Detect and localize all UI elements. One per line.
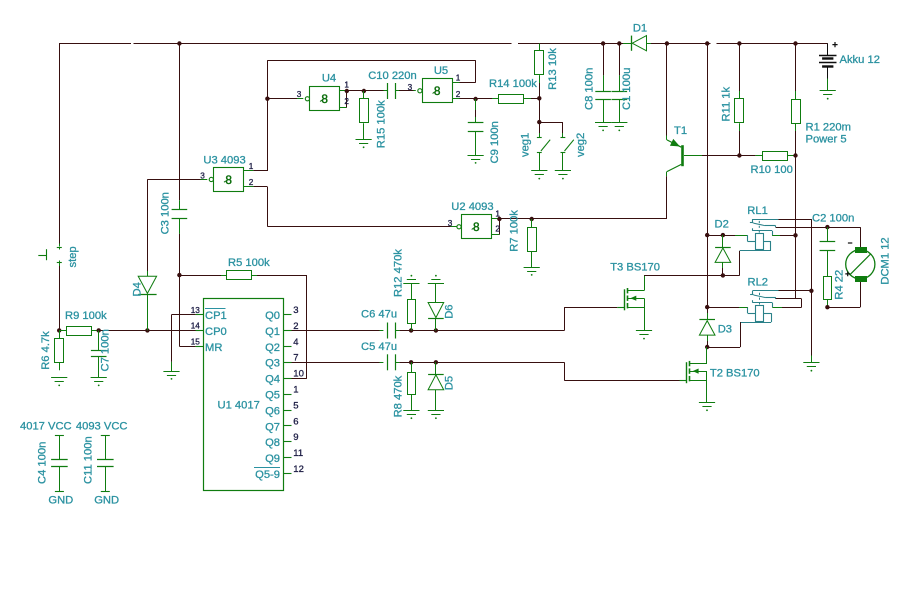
junction RL2 coil left node bbox=[705, 305, 709, 309]
ground R8 bbox=[403, 411, 419, 420]
wire T1 collector to U2 out bbox=[532, 176, 667, 219]
pin 1 label U5 bbox=[456, 73, 461, 82]
pushbutton actuator bbox=[38, 249, 47, 260]
junction R9 left node bbox=[57, 328, 61, 332]
pin 1 label U4 bbox=[344, 81, 349, 90]
wire T3 gate bbox=[564, 307, 617, 330]
label C2 100n bbox=[812, 213, 854, 225]
pin 14 CP0 U1 bbox=[191, 322, 227, 338]
wire node to MR bbox=[179, 275, 195, 346]
diode D5 bbox=[428, 362, 444, 410]
svg-text:Q5-9: Q5-9 bbox=[255, 469, 280, 481]
capacitor C4 bbox=[51, 435, 68, 491]
svg-text:R14 100k: R14 100k bbox=[489, 78, 537, 90]
label GND C11 bbox=[94, 495, 119, 507]
junction R14 right node bbox=[537, 96, 541, 100]
capacitor C11 bbox=[97, 435, 114, 491]
resistor R11 bbox=[735, 44, 744, 156]
pin 2 label U4 bbox=[344, 97, 349, 106]
label R12 470k bbox=[392, 249, 404, 297]
wire D6 to T3 step bbox=[436, 330, 564, 332]
pin 11 Q9 U1 bbox=[265, 448, 303, 465]
wire to D5 bbox=[411, 362, 436, 364]
label Akku 12 bbox=[840, 54, 880, 66]
junction D6 bottom bbox=[434, 328, 438, 332]
resistor R5 bbox=[179, 271, 307, 280]
label C8 100n bbox=[584, 68, 596, 110]
pin 1 Q5 U1 bbox=[265, 385, 299, 402]
resistor R9 bbox=[59, 327, 98, 336]
svg-text:13: 13 bbox=[191, 306, 201, 315]
svg-text:R10 100: R10 100 bbox=[751, 164, 793, 176]
junction R7 top bbox=[530, 217, 534, 221]
capacitor C7 bbox=[91, 330, 107, 377]
label R8 470k bbox=[392, 375, 404, 417]
wire step to R9 node bbox=[59, 262, 61, 330]
svg-text:Q2: Q2 bbox=[265, 342, 280, 354]
junction veg node bbox=[537, 120, 541, 124]
wire RL1 lower contact to R1 node bbox=[772, 235, 795, 237]
svg-text:1: 1 bbox=[293, 385, 298, 396]
svg-text:Akku 12: Akku 12 bbox=[840, 54, 880, 66]
diode D3 bbox=[699, 307, 715, 347]
motor DCM1 bbox=[846, 248, 875, 282]
svg-text:U5: U5 bbox=[434, 65, 448, 77]
label C5 47u bbox=[361, 341, 397, 353]
svg-text:C2 100n: C2 100n bbox=[812, 213, 854, 225]
junction C7 node bbox=[97, 328, 101, 332]
svg-text:4: 4 bbox=[293, 337, 298, 348]
relay RL2 bbox=[740, 291, 779, 323]
resistor R15 bbox=[360, 91, 369, 140]
junction U5 out node bbox=[473, 97, 477, 101]
wire T2 gate bbox=[564, 362, 679, 380]
svg-text:R7 100k: R7 100k bbox=[509, 210, 521, 252]
svg-text:R9 100k: R9 100k bbox=[65, 310, 107, 322]
wire C10 to U5 input bbox=[395, 90, 416, 92]
label U4 bbox=[322, 73, 336, 85]
pin 3 label U3 bbox=[200, 171, 205, 180]
pin 5 Q6 U1 bbox=[265, 400, 299, 417]
switch veg1 bbox=[537, 122, 550, 171]
svg-text:4093 VCC: 4093 VCC bbox=[76, 421, 128, 433]
svg-text:15: 15 bbox=[191, 338, 201, 347]
svg-text:Q5: Q5 bbox=[265, 390, 280, 402]
svg-text:5: 5 bbox=[293, 400, 298, 411]
svg-text:veg2: veg2 bbox=[575, 133, 587, 157]
junction D3 bottom T2 drain bbox=[705, 345, 709, 349]
wire to RL2 coil node bbox=[707, 235, 709, 307]
label R1 220m bbox=[806, 122, 851, 134]
op-amp U5 gate bbox=[418, 79, 453, 103]
junction on rail at R1 bbox=[793, 41, 797, 45]
ground CP1 bbox=[163, 372, 179, 380]
pin 2 label U3 bbox=[249, 178, 254, 187]
junction R1 bottom node bbox=[793, 153, 797, 157]
resistor R8 bbox=[408, 362, 416, 410]
svg-text:8: 8 bbox=[225, 173, 232, 187]
resistor R12 bbox=[408, 283, 416, 330]
diode D2 bbox=[715, 235, 731, 275]
svg-text:4017 VCC: 4017 VCC bbox=[20, 421, 72, 433]
junction on rail at C1 bbox=[617, 41, 621, 45]
label D6 bbox=[443, 304, 455, 318]
svg-text:R5 100k: R5 100k bbox=[228, 257, 270, 269]
pin 2 U4 stub bbox=[340, 91, 347, 108]
svg-text:3: 3 bbox=[408, 83, 413, 92]
wire RL2 lower contact bbox=[772, 307, 801, 309]
svg-text:Q1: Q1 bbox=[265, 326, 280, 338]
wire RL1 pole to C2 node bbox=[776, 227, 828, 229]
wire veg node to veg2 bbox=[539, 122, 563, 138]
pin 6 Q7 U1 bbox=[265, 416, 299, 433]
IC U1 4017 body bbox=[204, 299, 284, 491]
svg-text:C6 47u: C6 47u bbox=[361, 309, 397, 321]
pin 7 Q3 U1 bbox=[265, 353, 299, 370]
switch veg2 bbox=[561, 138, 574, 171]
svg-text:T1: T1 bbox=[674, 125, 687, 137]
label DCM1 12 bbox=[879, 237, 891, 284]
svg-text:T2 BS170: T2 BS170 bbox=[710, 367, 760, 379]
svg-text:Power 5: Power 5 bbox=[806, 134, 847, 146]
svg-text:C4 100n: C4 100n bbox=[37, 442, 49, 484]
svg-text:U3 4093: U3 4093 bbox=[203, 154, 245, 166]
svg-text:D3: D3 bbox=[718, 323, 732, 335]
ground veg2 bbox=[555, 171, 571, 180]
svg-text:C10 220n: C10 220n bbox=[368, 70, 417, 82]
label T2 BS170 bbox=[710, 367, 760, 379]
ground C8 bbox=[595, 123, 611, 132]
resistor R10 bbox=[739, 152, 795, 161]
pin 10 Q4 U1 bbox=[265, 369, 304, 386]
junction D2 top bbox=[721, 233, 725, 237]
svg-text:1: 1 bbox=[249, 162, 254, 171]
svg-text:8: 8 bbox=[434, 84, 441, 98]
svg-text:Q7: Q7 bbox=[265, 421, 280, 433]
label C9 100n bbox=[489, 121, 501, 163]
label U1 4017 bbox=[218, 400, 260, 412]
svg-text:9: 9 bbox=[293, 432, 298, 443]
pin 1 U4 stub bbox=[340, 90, 347, 92]
wire Q1 to C6 bbox=[292, 330, 384, 332]
wire T1 base to R10 bbox=[702, 155, 739, 157]
label R7 100k bbox=[509, 210, 521, 252]
svg-text:D4: D4 bbox=[131, 282, 143, 296]
op-amp U3 gate 4093 bbox=[209, 168, 243, 192]
svg-text:R13 10k: R13 10k bbox=[547, 48, 559, 90]
label Power 5 bbox=[806, 134, 847, 146]
svg-text:1: 1 bbox=[344, 81, 349, 90]
svg-text:3: 3 bbox=[293, 305, 298, 316]
transistor T2 BS170 bbox=[680, 347, 708, 403]
svg-text:2: 2 bbox=[344, 97, 349, 106]
svg-text:C11 100n: C11 100n bbox=[83, 436, 95, 484]
ground T3 source bbox=[636, 331, 652, 340]
svg-text:10: 10 bbox=[293, 369, 304, 380]
junction on rail at T1 emitter bbox=[665, 41, 669, 45]
wire C2 node to motor top bbox=[827, 227, 860, 247]
svg-text:U2 4093: U2 4093 bbox=[451, 201, 493, 213]
label 4017 VCC bbox=[20, 421, 72, 433]
svg-text:8: 8 bbox=[321, 92, 328, 106]
svg-text:R11 1k: R11 1k bbox=[721, 86, 733, 121]
label D3 bbox=[718, 323, 732, 335]
junction D5 top bbox=[434, 360, 438, 364]
junction RL1 coil left node bbox=[705, 233, 709, 237]
label U2 4093 bbox=[451, 201, 493, 213]
svg-text:R6 4.7k: R6 4.7k bbox=[40, 331, 52, 370]
transistor T1 bbox=[667, 140, 703, 176]
resistor R4 bbox=[824, 250, 832, 307]
svg-text:R4 22: R4 22 bbox=[834, 270, 846, 300]
label C7 100n bbox=[99, 329, 111, 371]
svg-text:D2: D2 bbox=[715, 219, 729, 231]
svg-text:R15 100k: R15 100k bbox=[375, 100, 387, 148]
label R4 22 bbox=[834, 270, 846, 300]
label GND C4 bbox=[48, 495, 73, 507]
svg-text:RL1: RL1 bbox=[747, 205, 768, 217]
svg-text:C3 100n: C3 100n bbox=[159, 192, 171, 234]
wire U3 pin3 lead bbox=[201, 179, 208, 181]
wire rail to T1 emitter bbox=[666, 44, 668, 140]
ground C1 bbox=[611, 123, 627, 132]
junction R5 node bbox=[177, 273, 181, 277]
label R15 100k bbox=[375, 100, 387, 148]
label step bbox=[67, 246, 79, 267]
svg-text:14: 14 bbox=[191, 322, 201, 331]
wire U4 input bbox=[267, 98, 303, 100]
label D4 bbox=[131, 282, 143, 296]
junction T1 base node bbox=[737, 153, 741, 157]
label U5 bbox=[434, 65, 448, 77]
wire U3 pin1 to U5 pin1 loop bbox=[267, 60, 475, 171]
resistor R13 bbox=[535, 44, 544, 99]
wire R15 to C10 bbox=[364, 90, 387, 92]
label R11 1k bbox=[721, 86, 733, 121]
label plus motor bbox=[845, 272, 850, 277]
label R14 100k bbox=[489, 78, 537, 90]
wire to ground x811 bbox=[811, 291, 813, 363]
svg-text:R12 470k: R12 470k bbox=[392, 249, 404, 297]
wire RL2 pole to motor node bbox=[776, 299, 802, 308]
ground R6 bbox=[51, 378, 67, 387]
switch step bbox=[57, 248, 62, 263]
svg-text:C5 47u: C5 47u bbox=[361, 341, 397, 353]
wire R1 node to RL2 pole bbox=[795, 235, 797, 299]
wire R13 to veg node bbox=[539, 98, 541, 122]
svg-text:Q6: Q6 bbox=[265, 405, 280, 417]
label D2 bbox=[715, 219, 729, 231]
svg-text:U1 4017: U1 4017 bbox=[218, 400, 260, 412]
label 4093 VCC bbox=[76, 421, 128, 433]
svg-text:C1 100u: C1 100u bbox=[621, 68, 633, 110]
svg-text:T3 BS170: T3 BS170 bbox=[610, 261, 660, 273]
svg-text:C7 100n: C7 100n bbox=[99, 329, 111, 371]
pin 1 U5 stub bbox=[452, 82, 475, 84]
wire CP1 to ground bbox=[172, 315, 196, 372]
wire RL2 top contact to gnd node bbox=[779, 290, 812, 292]
wire RL1 coil left bbox=[707, 235, 747, 237]
label R6 4.7k bbox=[40, 331, 52, 370]
svg-text:DCM1 12: DCM1 12 bbox=[879, 237, 891, 284]
wire R4 node to motor bottom bbox=[827, 281, 860, 307]
svg-text:Q9: Q9 bbox=[265, 453, 280, 465]
label RL1 bbox=[747, 205, 768, 217]
wire U3 pin2 to U2 input bbox=[267, 187, 457, 227]
junction U2 output bbox=[497, 217, 501, 221]
capacitor C1 bbox=[612, 44, 628, 123]
pin 1 label U2 bbox=[495, 209, 500, 218]
capacitor C9 bbox=[468, 99, 484, 155]
wire C5 to R8 bbox=[395, 362, 411, 364]
label C10 220n bbox=[368, 70, 417, 82]
ground C9 bbox=[468, 156, 484, 164]
label C11 100n bbox=[83, 436, 95, 484]
ground R7 bbox=[524, 268, 540, 276]
svg-text:Q0: Q0 bbox=[265, 310, 280, 322]
resistor R7 bbox=[528, 219, 537, 267]
svg-text:D5: D5 bbox=[443, 376, 455, 390]
svg-text:veg1: veg1 bbox=[520, 133, 532, 157]
label RL2 bbox=[748, 277, 769, 289]
label T1 bbox=[674, 125, 687, 137]
svg-text:GND: GND bbox=[48, 495, 73, 507]
capacitor C2 bbox=[820, 227, 836, 250]
svg-text:CP0: CP0 bbox=[205, 326, 227, 338]
svg-text:2: 2 bbox=[249, 178, 254, 187]
wire RL2 coil left bbox=[707, 307, 747, 309]
wire C3 to R5 node bbox=[179, 218, 181, 275]
ground R15 bbox=[356, 140, 372, 149]
junction R8 top bbox=[409, 360, 413, 364]
label T3 BS170 bbox=[610, 261, 660, 273]
wire rail to battery bbox=[796, 44, 828, 56]
svg-text:12: 12 bbox=[293, 464, 304, 475]
ground T2 source bbox=[699, 403, 715, 412]
wire U3 out to D4 bbox=[147, 179, 200, 271]
svg-text:1: 1 bbox=[456, 73, 461, 82]
svg-text:8: 8 bbox=[473, 220, 480, 234]
wire +12V top rail bbox=[59, 43, 828, 45]
capacitor C8 bbox=[595, 44, 611, 123]
label D1 bbox=[633, 23, 647, 35]
pin 3 label U4 bbox=[297, 90, 302, 99]
wire U2 out to R7 bbox=[499, 218, 531, 220]
op-amp U2 gate 4093 bbox=[457, 215, 492, 239]
capacitor C6 bbox=[388, 323, 396, 339]
pin 1 U3 stub bbox=[244, 170, 268, 172]
svg-text:R8 470k: R8 470k bbox=[392, 375, 404, 417]
wire R5 to Q4 bbox=[292, 275, 307, 378]
pin 2 label U2 bbox=[495, 224, 500, 233]
wire Q3 to C5 bbox=[292, 362, 384, 364]
wire D5 to T2 step bbox=[436, 362, 564, 364]
junction C2 top node bbox=[825, 225, 829, 229]
label R13 10k bbox=[547, 48, 559, 90]
wire to D6 bbox=[411, 330, 436, 332]
ground relay contacts bbox=[803, 363, 819, 372]
svg-text:6: 6 bbox=[293, 416, 298, 427]
ground D6 inverted bbox=[428, 275, 444, 284]
label U3 4093 bbox=[203, 154, 245, 166]
label R9 100k bbox=[65, 310, 107, 322]
pin 3 label U2 bbox=[448, 219, 453, 228]
svg-text:Q3: Q3 bbox=[265, 358, 280, 370]
op-amp U4 gate bbox=[305, 87, 339, 111]
junction on rail at C3 bbox=[177, 41, 181, 45]
junction U4 input node bbox=[265, 97, 269, 101]
pin 2 U2 stub bbox=[492, 219, 500, 235]
resistor R14 bbox=[476, 95, 540, 104]
svg-text:U4: U4 bbox=[322, 73, 336, 85]
wire rail to C3 bbox=[179, 44, 181, 210]
svg-text:3: 3 bbox=[448, 219, 453, 228]
svg-text:3: 3 bbox=[297, 90, 302, 99]
label C3 100n bbox=[159, 192, 171, 234]
capacitor C5 bbox=[388, 354, 396, 370]
pin 2 Q1 U1 bbox=[265, 321, 299, 338]
junction U4 output bbox=[345, 89, 349, 93]
label minus motor bbox=[848, 242, 852, 244]
ground D5 bbox=[428, 411, 444, 420]
label + battery bbox=[832, 42, 837, 47]
pin 3 Q0 U1 bbox=[265, 305, 299, 322]
label C4 100n bbox=[37, 442, 49, 484]
wire R9 to D4 node bbox=[99, 330, 204, 332]
label veg1 bbox=[520, 133, 532, 157]
wire T3 drain to RL1 coil right bbox=[644, 251, 740, 276]
svg-text:MR: MR bbox=[205, 342, 222, 354]
pin 15 MR U1 bbox=[191, 338, 223, 354]
pin 1 U2 stub bbox=[492, 218, 500, 220]
pin 12 Q5-9 U1 bbox=[254, 464, 304, 481]
diode D6 bbox=[428, 283, 444, 330]
svg-text:GND: GND bbox=[94, 495, 119, 507]
wire R1 node down bbox=[795, 156, 797, 236]
pin 1 label U3 bbox=[249, 162, 254, 171]
wire C6 to T3 gate line bbox=[395, 330, 411, 332]
junction R15 top bbox=[362, 89, 366, 93]
junction R12 bottom bbox=[409, 328, 413, 332]
junction on rail at R11 bbox=[737, 41, 741, 45]
wire rail to RL1 coil node bbox=[707, 44, 709, 236]
junction D2 bottom bbox=[721, 273, 725, 277]
junction R4 bottom node bbox=[825, 305, 829, 309]
junction RL1 lower contact node bbox=[793, 233, 797, 237]
svg-text:step: step bbox=[67, 246, 79, 267]
pin 3 label U5 bbox=[408, 83, 413, 92]
battery Akku 12 bbox=[819, 56, 837, 91]
svg-text:2: 2 bbox=[495, 224, 500, 233]
svg-text:CP1: CP1 bbox=[205, 310, 227, 322]
pin 2 U3 stub bbox=[244, 186, 268, 188]
ground R12 inverted bbox=[403, 275, 419, 284]
diode D4 bbox=[138, 271, 156, 330]
svg-text:2: 2 bbox=[456, 90, 461, 99]
resistor R1 bbox=[792, 44, 801, 156]
label C6 47u bbox=[361, 309, 397, 321]
svg-text:D1: D1 bbox=[633, 23, 647, 35]
junction on rail at node x707 bbox=[705, 41, 709, 45]
capacitor C3 bbox=[172, 210, 188, 219]
pin 9 Q8 U1 bbox=[265, 432, 299, 449]
junction D4 bottom node bbox=[145, 328, 149, 332]
ground C7 bbox=[91, 378, 107, 387]
pin 2 label U5 bbox=[456, 90, 461, 99]
label D5 bbox=[443, 376, 455, 390]
wire RL1 top contact to gnd rail bbox=[778, 219, 811, 291]
svg-text:11: 11 bbox=[293, 448, 303, 459]
